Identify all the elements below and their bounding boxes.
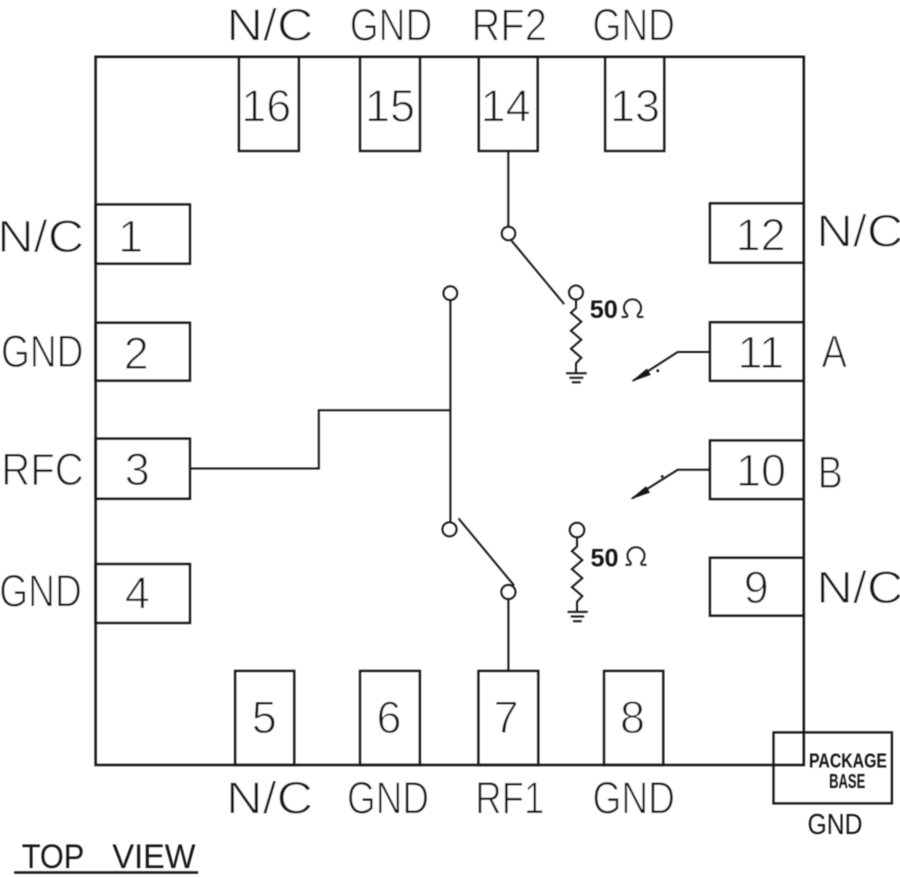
svg-text:N/C: N/C [226,772,313,823]
svg-text:VIEW: VIEW [112,838,196,876]
svg-text:12: 12 [736,209,786,260]
svg-text:10: 10 [736,445,786,496]
svg-text:13: 13 [610,81,660,132]
svg-text:50: 50 [590,296,618,324]
svg-text:N/C: N/C [816,562,900,613]
svg-text:GND: GND [0,566,82,617]
svg-text:6: 6 [376,692,401,743]
svg-text:GND: GND [808,809,863,841]
svg-text:16: 16 [241,81,291,132]
svg-text:5: 5 [252,692,277,743]
svg-text:1: 1 [118,211,143,262]
svg-text:8: 8 [620,692,645,743]
svg-text:BASE: BASE [829,771,865,793]
svg-text:GND: GND [347,772,429,823]
svg-text:GND: GND [592,772,675,823]
svg-text:PACKAGE: PACKAGE [809,751,887,773]
svg-text:7: 7 [494,692,519,743]
svg-text:9: 9 [744,562,769,613]
svg-text:11: 11 [737,327,784,378]
svg-text:N/C: N/C [0,211,84,262]
svg-text:2: 2 [124,328,149,379]
svg-text:GND: GND [350,0,433,51]
svg-text:50: 50 [591,545,619,573]
svg-text:GND: GND [592,0,675,51]
svg-text:15: 15 [365,81,415,132]
svg-text:3: 3 [125,444,150,495]
svg-text:14: 14 [481,81,531,132]
svg-text:B: B [818,447,843,498]
svg-text:A: A [821,326,847,377]
svg-text:4: 4 [125,568,150,619]
svg-text:RF1: RF1 [475,772,544,823]
svg-text:RF2: RF2 [471,0,547,51]
svg-text:N/C: N/C [816,206,900,257]
svg-text:TOP: TOP [22,838,85,876]
svg-text:RFC: RFC [1,444,84,495]
svg-text:GND: GND [1,326,84,377]
svg-text:N/C: N/C [227,0,314,51]
